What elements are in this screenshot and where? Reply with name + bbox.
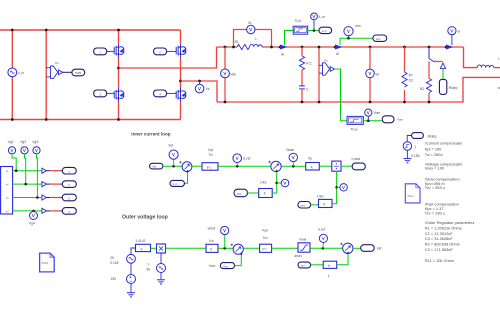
svg-text:Tci: Tci xyxy=(209,153,213,157)
resistor Ro xyxy=(428,62,430,79)
divider block xyxy=(332,161,341,171)
from tag iL_m xyxy=(170,180,184,186)
svg-text:C1 = 12.3912nF: C1 = 12.3912nF xyxy=(425,231,454,236)
goto Vom xyxy=(382,116,394,123)
mosfet Q2 xyxy=(176,44,186,58)
svg-text:/Current compensator: /Current compensator xyxy=(425,140,463,145)
gate lead Q4 xyxy=(167,92,177,94)
node dot RC top xyxy=(301,46,304,49)
from tag iom2 xyxy=(298,262,311,268)
from tag Vom outer xyxy=(220,263,234,269)
divider denominator chain xyxy=(298,202,311,209)
voltmeter Vbusm xyxy=(292,162,294,167)
svg-text:50: 50 xyxy=(147,267,151,271)
svg-text:P1.bc: P1.bc xyxy=(42,261,49,265)
goto iom xyxy=(373,35,387,41)
voltmeter Voref xyxy=(224,235,226,249)
gain 1/Ks a xyxy=(259,189,273,198)
source A1 sine xyxy=(127,254,136,263)
voltmeter iref xyxy=(173,159,175,166)
feedforward from tag Vbm xyxy=(234,189,248,197)
svg-text:Ai: Ai xyxy=(336,52,339,56)
Rstep block xyxy=(439,79,446,94)
svg-text:Inner current loop: Inner current loop xyxy=(131,131,170,136)
gain K3 xyxy=(311,264,324,266)
svg-text:iL,m: iL,m xyxy=(173,182,178,186)
svg-text:Kpi = 100: Kpi = 100 xyxy=(425,146,442,151)
source V_in xyxy=(8,68,17,77)
svg-text:Vom: Vom xyxy=(374,111,381,115)
voltmeter Vb xyxy=(199,81,201,84)
wire bottom rail bridge xyxy=(0,119,181,121)
svg-text:Rstep: Rstep xyxy=(428,135,437,139)
gate tag Q2 xyxy=(154,48,167,55)
svg-text:0.158: 0.158 xyxy=(411,154,419,158)
svg-text:3Ω: 3Ω xyxy=(420,87,425,91)
wire limiter to sum4 xyxy=(310,247,343,249)
node dot left leg bottom xyxy=(117,118,120,121)
voltmeter iLref2 xyxy=(322,243,325,249)
svg-text:iref: iref xyxy=(377,247,382,251)
svg-text:Rstep: Rstep xyxy=(449,86,458,90)
svg-text:R7: R7 xyxy=(409,73,413,77)
svg-text:Voref: Voref xyxy=(208,226,216,230)
voltmeter io xyxy=(451,35,453,45)
wire ff up xyxy=(272,172,277,193)
svg-text:Tf,ov: Tf,ov xyxy=(350,127,358,131)
svg-text:Tcv: Tcv xyxy=(263,236,268,240)
wire iref to sum1 xyxy=(163,165,182,167)
svg-text:Vom: Vom xyxy=(223,264,228,268)
svg-text:Vom: Vom xyxy=(209,264,216,268)
node dot sensor top xyxy=(45,29,48,32)
voltmeter VL xyxy=(247,25,255,33)
wire current sense 1 xyxy=(285,31,294,46)
ground B xyxy=(160,273,162,280)
svg-text:/Outer Regulator parameters: /Outer Regulator parameters xyxy=(425,220,475,225)
svg-text:1Ω: 1Ω xyxy=(409,78,414,82)
svg-text:imax: imax xyxy=(300,237,307,241)
svg-text:iom: iom xyxy=(376,37,380,41)
svg-text:VL: VL xyxy=(248,21,252,25)
svg-text:R2 = 809.698 Ohms: R2 = 809.698 Ohms xyxy=(425,242,460,247)
goto vmod xyxy=(352,163,365,170)
svg-text:Vg3: Vg3 xyxy=(32,140,38,144)
svg-text:Vbm: Vbm xyxy=(237,192,242,196)
node dot Vab top xyxy=(224,46,227,49)
svg-text:iL,ref: iL,ref xyxy=(243,157,250,161)
sum3 xyxy=(233,244,243,254)
svg-text:Vg4: Vg4 xyxy=(29,222,35,226)
svg-text:1: 1 xyxy=(147,263,149,267)
svg-text:25: 25 xyxy=(110,256,114,260)
goto tag Vbm xyxy=(72,69,85,76)
note icon P1 left xyxy=(40,253,55,272)
voltage sensor Kv2 xyxy=(319,63,334,75)
gain Vp xyxy=(306,163,320,171)
goto iref outer xyxy=(353,247,361,249)
wire left leg xyxy=(118,30,120,44)
svg-text:R1 = 1.20921k Ohms: R1 = 1.20921k Ohms xyxy=(425,225,462,230)
svg-text:C2 = 171.583nF: C2 = 171.583nF xyxy=(425,247,454,252)
svg-text:Outer voltage loop: Outer voltage loop xyxy=(122,215,168,221)
wire output top xyxy=(464,47,478,68)
wire sum2 out xyxy=(281,165,306,167)
svg-text:P1.tx: P1.tx xyxy=(408,194,415,198)
node dot left leg top xyxy=(117,29,120,32)
mosfet Q4 xyxy=(176,88,186,102)
svg-text:L: L xyxy=(255,37,257,41)
svg-text:Tf,oi: Tf,oi xyxy=(295,19,302,23)
svg-text:iom: iom xyxy=(301,264,305,268)
node dot B xyxy=(179,80,182,83)
svg-text:Vab: Vab xyxy=(230,72,236,76)
gain 1.4142 xyxy=(136,244,151,251)
step source xyxy=(403,142,411,150)
sum2 xyxy=(271,161,281,171)
multiplier xyxy=(157,244,166,253)
svg-text:230: 230 xyxy=(111,277,117,281)
wire Vom to sum3 xyxy=(235,254,242,265)
switch control triangle xyxy=(440,63,445,68)
wire input source branch xyxy=(11,30,13,120)
svg-text:Tcv = 953 u: Tcv = 953 u xyxy=(425,185,445,190)
resistor R7 xyxy=(403,46,406,49)
wire tfov out xyxy=(363,120,382,122)
node dot VL left xyxy=(232,46,235,49)
svg-text:Tci = 260u: Tci = 260u xyxy=(425,152,443,157)
PI box 1 xyxy=(202,163,218,171)
transfer function Tf_ov xyxy=(347,116,363,124)
wire PI to sum2 xyxy=(192,165,202,167)
svg-text:1: 1 xyxy=(328,274,330,278)
sum1 xyxy=(182,162,192,172)
goto iL_m xyxy=(319,27,332,33)
PWM line 2 xyxy=(13,183,42,185)
comment block compensators xyxy=(425,140,463,215)
svg-text:0.118: 0.118 xyxy=(110,261,118,265)
wire right leg xyxy=(180,30,182,44)
svg-text:Imax = 100: Imax = 100 xyxy=(425,166,445,171)
PWM line 1 xyxy=(13,170,42,172)
svg-text:PWM: PWM xyxy=(75,71,81,75)
resistor RL xyxy=(237,44,250,49)
svg-text:1: 1 xyxy=(414,145,416,149)
svg-text:Kpi: Kpi xyxy=(208,148,213,152)
svg-text:1/Ks: 1/Ks xyxy=(317,195,324,199)
node dot bottom source xyxy=(11,118,14,121)
wire tf out xyxy=(308,30,319,32)
voltmeter iL_m xyxy=(313,20,315,31)
wire top rail xyxy=(0,29,181,31)
wire mult to Ka xyxy=(166,247,207,249)
svg-text:R,C: R,C xyxy=(306,61,312,65)
svg-text:iref: iref xyxy=(169,143,174,147)
current sensor io xyxy=(445,46,448,49)
gate tag Q1 xyxy=(94,48,107,55)
PWM line 3 xyxy=(13,197,42,199)
gain 1/Ks b xyxy=(319,199,333,207)
gate tag Q3 xyxy=(94,90,107,97)
svg-text:RL: RL xyxy=(235,40,239,44)
gate tag Q4 xyxy=(154,90,167,97)
svg-text:Vp: Vp xyxy=(308,157,312,161)
svg-text:1/Ks: 1/Ks xyxy=(260,180,267,184)
voltage sensor Kv input xyxy=(46,66,63,79)
ground A xyxy=(130,284,132,293)
svg-text:R11 = 10k Ohms: R11 = 10k Ohms xyxy=(425,258,454,263)
svg-text:iom: iom xyxy=(355,24,361,28)
sum4 xyxy=(343,243,353,253)
ground step xyxy=(406,150,408,158)
wire bottom measurement rail xyxy=(217,77,500,102)
source A2 dc xyxy=(130,263,132,274)
node dot Vo top xyxy=(369,46,372,49)
svg-text:v,mod: v,mod xyxy=(351,157,360,161)
wire main measurement line xyxy=(217,46,238,48)
goto Rstep source xyxy=(412,133,424,139)
voltmeter ff xyxy=(277,182,282,184)
wire current sense 2 xyxy=(340,38,373,45)
voltmeter Vg4 xyxy=(32,210,35,213)
wire ff xyxy=(248,192,259,194)
voltmeter denom xyxy=(337,186,340,188)
svg-text:1.4142: 1.4142 xyxy=(135,239,145,243)
wire node A xyxy=(119,47,217,68)
transfer function Tf_oi xyxy=(293,26,308,34)
from tag iref inner xyxy=(150,163,163,169)
wire Kv2 out xyxy=(334,69,347,121)
wire to divider xyxy=(319,165,332,167)
svg-text:-imax: -imax xyxy=(294,254,302,258)
node dot Vb tap xyxy=(198,80,201,83)
gate lead Q3 xyxy=(107,92,115,94)
svg-text:Ka: Ka xyxy=(209,239,213,243)
wire source A to gain xyxy=(131,248,136,254)
svg-text:Vo: Vo xyxy=(375,72,379,76)
voltmeter Vom small xyxy=(367,116,369,121)
gain Ka xyxy=(206,244,218,252)
PI box 2 xyxy=(260,244,272,252)
node dot sensor bottom xyxy=(45,118,48,121)
mosfet Q3 xyxy=(114,88,124,102)
svg-text:Vg2: Vg2 xyxy=(20,140,26,144)
voltmeter Vo xyxy=(369,47,371,102)
wire sensor branch xyxy=(45,30,47,120)
note icon P1 right xyxy=(405,184,420,203)
svg-text:Kv: Kv xyxy=(55,61,59,65)
svg-text:Vb: Vb xyxy=(206,87,210,91)
capacitor C xyxy=(301,70,303,86)
svg-text:Ai: Ai xyxy=(281,52,284,56)
voltmeter Vab xyxy=(224,47,226,102)
wire denom up xyxy=(332,171,337,204)
resistor R_C xyxy=(301,47,303,56)
svg-text:Vom: Vom xyxy=(397,118,404,122)
wire rstep src xyxy=(407,136,411,142)
mosfet Q1 xyxy=(114,44,124,58)
svg-text:iref: iref xyxy=(152,165,156,169)
node dot A xyxy=(117,67,120,70)
current sensor Ai2 xyxy=(334,46,337,49)
modulator block xyxy=(1,167,13,215)
svg-text:P I: P I xyxy=(207,166,211,170)
wire sum3 to PI2 xyxy=(243,247,259,249)
wire node B xyxy=(181,81,218,102)
source B sine xyxy=(160,253,162,264)
voltmeter iom xyxy=(348,36,350,38)
wire K3 to sum4 xyxy=(337,254,348,265)
node dot Vab bottom xyxy=(224,101,227,104)
svg-text:iL,m: iL,m xyxy=(322,29,327,33)
limiter xyxy=(298,243,310,252)
wire sensor output xyxy=(63,71,72,73)
wire Ka to sum3 xyxy=(218,247,233,249)
gate lead Q1 xyxy=(107,50,115,52)
svg-text:vom: vom xyxy=(300,205,305,208)
svg-text:Kv: Kv xyxy=(324,58,328,62)
inductor L xyxy=(250,44,263,47)
svg-text:-: - xyxy=(234,255,235,259)
svg-text:Vbum: Vbum xyxy=(286,148,295,152)
current sensor Ai1 xyxy=(279,46,282,49)
svg-text:Vg1: Vg1 xyxy=(8,140,14,144)
svg-text:io: io xyxy=(458,29,461,33)
node dot top source xyxy=(11,29,14,32)
PWM line 4 xyxy=(13,210,42,212)
wire PI2 to limiter xyxy=(272,247,298,249)
load inductor Lo xyxy=(477,65,494,68)
comment block regulator parameters xyxy=(425,220,475,263)
wire rstep control xyxy=(442,68,444,79)
svg-text:Kpv: Kpv xyxy=(262,229,268,233)
svg-text:C3 = 31.2628nF: C3 = 31.2628nF xyxy=(425,236,454,241)
wire VL branch xyxy=(234,30,247,48)
gate lead Q2 xyxy=(167,50,177,52)
voltmeter iLref xyxy=(236,162,238,166)
switch branch xyxy=(428,46,431,49)
svg-text:v_in: v_in xyxy=(18,71,24,75)
wire to vmod xyxy=(341,165,352,167)
wire Kv2 branch xyxy=(318,47,320,102)
wire feedback iLm xyxy=(184,172,187,183)
svg-text:iL,m: iL,m xyxy=(319,15,325,19)
svg-text:Tcv = 195 u: Tcv = 195 u xyxy=(425,210,445,215)
node dot RC bottom xyxy=(301,101,304,104)
svg-text:P I: P I xyxy=(263,248,267,252)
svg-text:iLref: iLref xyxy=(318,228,324,232)
node dot VL right xyxy=(270,46,273,49)
